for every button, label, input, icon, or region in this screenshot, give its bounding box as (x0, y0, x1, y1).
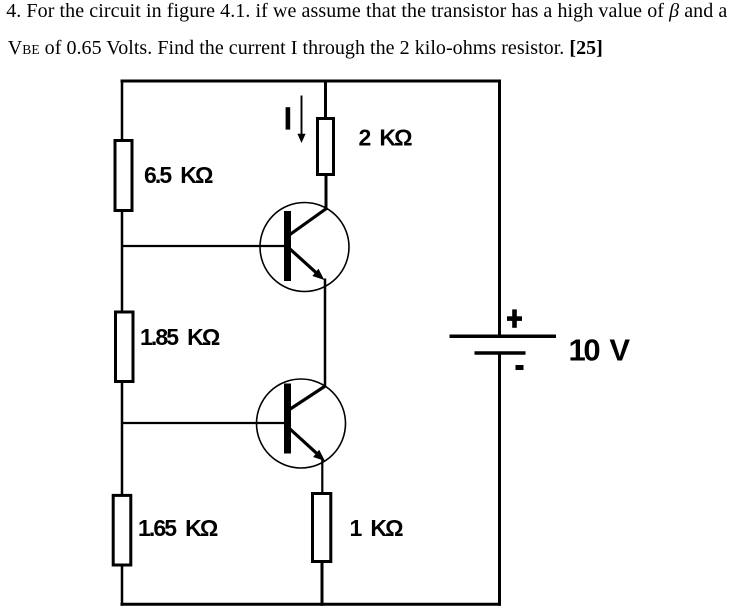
transistor Q2 (257, 379, 346, 468)
wire: right rail lower (498, 353, 501, 606)
wire: right rail upper (498, 80, 501, 336)
transistor Q1 (260, 203, 349, 292)
resistor R1 6.5 KΩ (115, 141, 213, 211)
svg-text:1.85 KΩ: 1.85 KΩ (140, 324, 220, 350)
problem text line 1 (6, 1, 727, 21)
wire: R5 to bottom rail (321, 561, 324, 606)
wire: Q1 emitter to Q2 collector node (324, 279, 327, 387)
current arrow (297, 96, 305, 144)
svg-text:2 KΩ: 2 KΩ (359, 125, 413, 151)
battery BT1 10 V (450, 309, 631, 370)
wire: R4 to Q1 collector node (325, 173, 328, 210)
wire: left rail (121, 80, 124, 606)
svg-text:1.65 KΩ: 1.65 KΩ (138, 515, 218, 541)
svg-text:1 KΩ: 1 KΩ (350, 515, 404, 541)
wire: base tap of Q1 (122, 245, 287, 247)
svg-text:6.5 KΩ: 6.5 KΩ (144, 162, 213, 188)
problem text line 2 (8, 38, 603, 58)
wire: bottom rail (121, 603, 502, 606)
resistor R5 1 KΩ (313, 494, 404, 562)
current label I (286, 107, 291, 129)
resistor R3 1.65 KΩ (113, 495, 218, 565)
wire: Q2 emitter to R5 (321, 459, 323, 495)
wire: top rail (121, 80, 502, 83)
wire: base tap of Q2 (122, 422, 287, 424)
wire: top rail to R4 (324, 81, 327, 120)
resistor R2 1.85 KΩ (116, 312, 220, 382)
svg-text:10 V: 10 V (569, 332, 631, 367)
resistor R4 2 KΩ (318, 119, 413, 175)
